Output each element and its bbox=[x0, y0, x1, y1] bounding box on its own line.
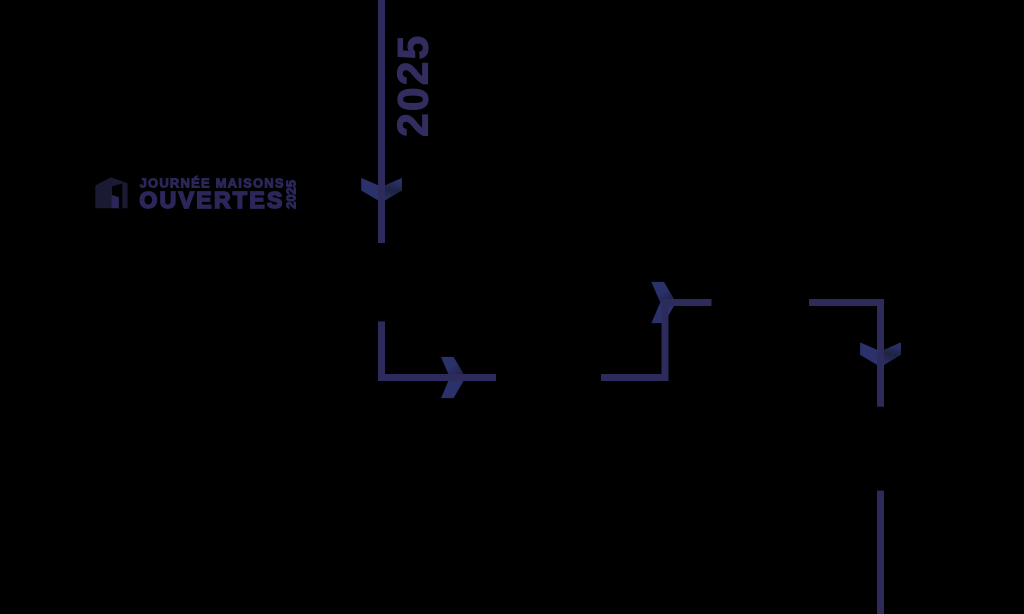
svg-text:2025: 2025 bbox=[284, 180, 299, 209]
svg-text:OUVERTES: OUVERTES bbox=[139, 187, 284, 213]
svg-text:2025: 2025 bbox=[390, 34, 437, 137]
